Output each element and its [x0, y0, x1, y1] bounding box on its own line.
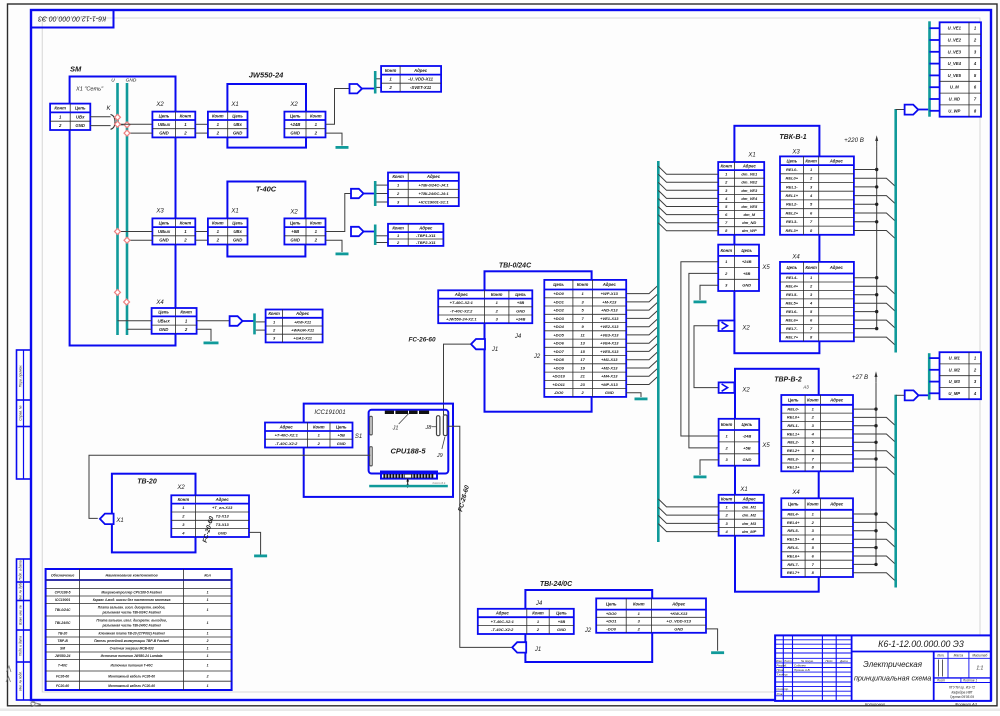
ground (ТВI-24/0C) — [711, 651, 724, 654]
junction on bus GND at K — [124, 122, 130, 128]
J9 connector slot — [443, 415, 447, 436]
svg-text:Микроконтроллер CPU188-5 Fastw: Микроконтроллер CPU188-5 Fastwel — [101, 591, 161, 595]
svg-text:Конт: Конт — [178, 497, 190, 502]
svg-text:+ТВI-24/0C-J4:1: +ТВI-24/0C-J4:1 — [418, 191, 449, 196]
svg-text:Копировал: Копировал — [865, 701, 886, 706]
cable label FC-20-60 (vertical) — [202, 515, 216, 543]
ТВ-20 X2 table — [171, 495, 249, 537]
svg-text:Лист: Лист — [936, 678, 946, 682]
svg-text:+ICC19001-S1:1: +ICC19001-S1:1 — [418, 199, 449, 204]
svg-text:+Т-40С-Х2:1: +Т-40С-Х2:1 — [450, 300, 474, 305]
svg-text:REL7-: REL7- — [787, 562, 799, 567]
svg-text:Адрес: Адрес — [742, 496, 757, 501]
svg-text:Конт: Конт — [721, 422, 733, 427]
svg-text:REL1-: REL1- — [786, 184, 798, 189]
svg-text:REL0-: REL0- — [786, 167, 798, 172]
svg-text:1: 1 — [207, 664, 209, 668]
ТВР X5 table — [719, 419, 760, 466]
external connector tap line (lower, teal) — [928, 353, 931, 400]
junction on bus U at K — [115, 114, 121, 120]
ТВК X1 label — [747, 153, 755, 159]
svg-text:Конт: Конт — [385, 68, 397, 73]
svg-text:1: 1 — [207, 608, 209, 612]
svg-text:1: 1 — [207, 654, 209, 658]
left signal group bus (teal) — [657, 161, 660, 542]
svg-text:GND: GND — [126, 78, 137, 84]
svg-text:Т3-Х13: Т3-Х13 — [216, 522, 230, 527]
svg-text:+VE4-X13: +VE4-X13 — [600, 341, 619, 346]
wire connector to tap line — [918, 109, 928, 111]
svg-text:dm_VE4: dm_VE4 — [741, 196, 758, 201]
wire tap to address row1 — [376, 78, 381, 80]
svg-text:Плата гальван. изол. дискретн.: Плата гальван. изол. дискретн. входов, — [98, 606, 166, 610]
T-40C X2 label — [289, 210, 298, 216]
JW550 X1 label — [230, 102, 238, 108]
ТВР X4 table — [781, 498, 853, 577]
X1 connector symbol (ТВ-20) — [100, 514, 114, 525]
wire bus U to X2.1 — [118, 123, 153, 125]
svg-text:+GA1-X11: +GA1-X11 — [293, 336, 312, 341]
svg-text:J4: J4 — [535, 601, 543, 607]
left margin stamp column (upper) — [17, 350, 32, 479]
ТВР X2 label — [741, 388, 750, 394]
svg-text:Цепь: Цепь — [158, 310, 169, 315]
svg-text:dm_M2: dm_M2 — [742, 513, 757, 518]
svg-text:J1: J1 — [491, 347, 498, 353]
teal tap bar (+5V A) — [374, 181, 377, 206]
svg-text:ICC191001: ICC191001 — [314, 409, 345, 416]
svg-text:А3: А3 — [802, 385, 809, 390]
svg-text:GND: GND — [674, 626, 683, 631]
wires relay- rows to +27V rail — [853, 409, 876, 564]
ТВК X3 table — [780, 156, 854, 234]
svg-text:+24В: +24В — [516, 317, 526, 322]
ТВ-20 X2 label — [176, 485, 185, 491]
SM X2 label — [155, 102, 164, 108]
svg-text:REL3-: REL3- — [786, 219, 798, 224]
ТВР upper relay table — [781, 395, 853, 471]
svg-text:REL4+: REL4+ — [787, 520, 800, 525]
wires tap A to address rows — [376, 185, 388, 202]
J1 label — [491, 347, 498, 353]
wire SM.X3.1 to T40C.X1.1 — [195, 231, 208, 233]
svg-text:Монтажный кабель FC20-60: Монтажный кабель FC20-60 — [108, 684, 155, 688]
wire bus U to X3.1 — [118, 231, 153, 233]
svg-text:REL6-: REL6- — [786, 309, 798, 314]
svg-text:+Т-40С-Х2:1: +Т-40С-Х2:1 — [275, 433, 299, 438]
svg-text:REL2-: REL2- — [787, 440, 799, 445]
svg-text:ТВI-24/0C: ТВI-24/0C — [55, 621, 71, 625]
junction bus U / X2.1 — [115, 121, 121, 127]
svg-text:Конт: Конт — [54, 106, 66, 111]
J8 label (CPU) — [424, 425, 436, 431]
svg-text:+Т-40С-Х2:1: +Т-40С-Х2:1 — [491, 619, 515, 624]
svg-text:Цепь: Цепь — [290, 220, 301, 225]
svg-text:разъемная часть ТВI-24/0C Fast: разъемная часть ТВI-24/0C Fastwel — [101, 624, 160, 628]
wires J2 rows to left signal bus — [626, 285, 658, 384]
wire SM.X2.1 to JW550.X1.1 — [195, 123, 208, 125]
svg-text:REL2+: REL2+ — [787, 448, 800, 453]
svg-text:GND: GND — [337, 441, 346, 446]
svg-text:X2: X2 — [289, 210, 298, 216]
svg-text:FC-26-60: FC-26-60 — [457, 484, 471, 512]
SM block label — [70, 65, 82, 74]
backplane slot line (teal) — [369, 481, 448, 487]
svg-text:U_VE1: U_VE1 — [948, 26, 962, 31]
address table of SM output net — [266, 310, 323, 343]
svg-text:GND: GND — [159, 131, 169, 136]
svg-text:Листов 1: Листов 1 — [962, 678, 977, 682]
svg-text:Формат А3: Формат А3 — [955, 701, 978, 706]
wire J2 GND to ground — [706, 629, 718, 651]
svg-text:Счетчик энергии МСВ-633: Счетчик энергии МСВ-633 — [110, 647, 154, 651]
svg-text:19: 19 — [580, 365, 585, 370]
svg-text:REL6-: REL6- — [787, 545, 799, 550]
svg-text:Цепь: Цепь — [159, 113, 170, 118]
svg-text:Конт: Конт — [212, 220, 224, 225]
svg-text:принципиальная схема: принципиальная схема — [854, 674, 931, 683]
J2 label — [533, 354, 541, 360]
junctions on +27V rail — [874, 407, 877, 566]
svg-text:U_VE4: U_VE4 — [948, 61, 962, 66]
wire bus GND to X3.2 — [127, 239, 152, 241]
svg-text:REL3+: REL3+ — [787, 465, 800, 470]
svg-text:Конт: Конт — [310, 113, 322, 118]
svg-text:Конт: Конт — [212, 113, 224, 118]
svg-text:Подп. и дата: Подп. и дата — [19, 560, 23, 580]
+220 В label — [844, 137, 864, 144]
svg-text:Цепь: Цепь — [515, 292, 526, 297]
ТВI-24/0C J4 power table — [478, 609, 574, 634]
svg-text:+VE5-X13: +VE5-X13 — [600, 349, 619, 354]
svg-text:REL2+: REL2+ — [786, 210, 799, 215]
svg-text:X4: X4 — [155, 300, 164, 306]
svg-text:2: 2 — [58, 123, 62, 128]
svg-text:Цепь: Цепь — [788, 502, 799, 507]
output board ТВI-24/0C outline — [525, 590, 652, 662]
svg-text:Адрес: Адрес — [215, 497, 230, 502]
svg-text:Перв. примен.: Перв. примен. — [19, 365, 23, 388]
svg-text:GND: GND — [605, 390, 614, 395]
svg-text:+KW-X13: +KW-X13 — [670, 611, 688, 616]
svg-text:ТВ-20: ТВ-20 — [137, 479, 157, 486]
ТВI-24/0C title — [540, 581, 573, 588]
svg-text:GND: GND — [742, 283, 751, 288]
svg-text:Адрес: Адрес — [279, 424, 294, 429]
svg-text:ICC19001: ICC19001 — [55, 598, 70, 602]
svg-text:Цепь: Цепь — [786, 158, 797, 163]
svg-text:U_M1: U_M1 — [949, 356, 961, 361]
external connector table X12 (lower) — [940, 352, 982, 399]
svg-text:Адрес: Адрес — [829, 397, 844, 402]
svg-text:Пронин А.В.: Пронин А.В. — [794, 668, 811, 672]
svg-text:Электрическая: Электрическая — [863, 660, 923, 669]
svg-text:REL3+: REL3+ — [786, 228, 799, 233]
cable label FC-26-60 (vertical) — [457, 484, 471, 512]
svg-text:Конт: Конт — [180, 310, 192, 315]
ground (ТВР X5) — [694, 476, 707, 479]
svg-text:Панель релейной коммутации ТВР: Панель релейной коммутации ТВР-В Fastwel — [94, 639, 169, 643]
svg-text:ТВР-В-2: ТВР-В-2 — [774, 377, 802, 384]
ground (ТВI-0/24C J2) — [635, 398, 648, 401]
ICC191001 title — [314, 409, 345, 416]
ТВI-0/24C J4 power table — [438, 290, 532, 323]
T-40C X1 label — [230, 209, 238, 215]
svg-text:REL7+: REL7+ — [787, 570, 800, 575]
svg-text:Цепь: Цепь — [232, 220, 243, 225]
bus GND (teal) — [126, 83, 129, 335]
svg-text:X2: X2 — [741, 326, 750, 332]
svg-text:REL0+: REL0+ — [787, 415, 800, 420]
wire CPU card to ТВ-20 X1 (cable FC-20-60) — [89, 455, 371, 518]
wires tap B to address rows — [376, 236, 388, 243]
title block footer texts — [865, 701, 978, 706]
svg-text:+DO7: +DO7 — [553, 349, 564, 354]
svg-text:X3: X3 — [791, 150, 800, 156]
svg-text:17: 17 — [580, 357, 585, 362]
svg-text:+M2-X13: +M2-X13 — [601, 365, 618, 370]
svg-text:X2: X2 — [289, 102, 298, 108]
svg-text:ТВК-В-1: ТВК-В-1 — [779, 134, 806, 141]
junction bus GND / X3.2 — [124, 237, 130, 243]
slot arrow — [406, 478, 409, 488]
svg-text:X1: X1 — [747, 153, 755, 159]
svg-text:X4: X4 — [791, 490, 800, 496]
svg-text:Адрес: Адрес — [295, 311, 310, 316]
svg-text:разъемная часть ТВI-0/24C Fast: разъемная часть ТВI-0/24C Fastwel — [101, 611, 160, 615]
wire CPU J9 to ТВI-24/0C J1 (cable FC-26-60) — [447, 426, 512, 647]
svg-text:GND: GND — [290, 238, 300, 243]
svg-text:1: 1 — [207, 647, 209, 651]
wire to +5V tap A — [364, 193, 375, 195]
svg-text:Цепь: Цепь — [556, 611, 567, 616]
ТВI-24/0C J2 signal table — [596, 598, 706, 632]
ТВI-0/24C J2 signal table — [544, 280, 626, 397]
ТВК X5 table — [718, 245, 759, 291]
svg-text:+24В: +24В — [290, 122, 300, 127]
svg-text:Адрес: Адрес — [413, 68, 428, 73]
wire X2 link ТВК to ТВР — [694, 326, 719, 388]
svg-text:Конт: Конт — [180, 113, 192, 118]
svg-text:U_VE2: U_VE2 — [948, 38, 962, 43]
wire SM.X2.2 to JW550.X1.2 — [195, 132, 208, 134]
+27 В label — [852, 374, 868, 381]
svg-text:X3: X3 — [155, 209, 164, 215]
svg-text:Адрес: Адрес — [829, 265, 844, 270]
ТВI-0/24C title — [499, 263, 532, 270]
svg-text:+DO8: +DO8 — [553, 357, 564, 362]
svg-text:Адрес: Адрес — [742, 164, 757, 169]
wire SM.X3.2 to T40C.X1.2 — [195, 239, 208, 241]
svg-text:+WAGR-X11: +WAGR-X11 — [291, 328, 315, 333]
wire connector to teal tap — [362, 88, 375, 90]
page bottom shadow band — [0, 708, 1000, 711]
svg-text:X1 "Сеть": X1 "Сеть" — [75, 87, 104, 93]
connector symbol to external X12 (lower) — [905, 390, 919, 400]
wire J2 GND to ground — [626, 393, 641, 397]
svg-text:+VE2-X13: +VE2-X13 — [600, 324, 619, 329]
power supply JW550-24 outline — [227, 84, 306, 148]
SM X4 pin table — [152, 308, 197, 334]
svg-text:Слот 6.1: Слот 6.1 — [432, 481, 445, 485]
JW550-24 title — [249, 71, 284, 80]
svg-text:+27 В: +27 В — [852, 374, 868, 381]
svg-text:Цепь: Цепь — [741, 248, 752, 253]
svg-text:+VE1-X13: +VE1-X13 — [600, 316, 619, 321]
svg-text:+Т_вн-Х13: +Т_вн-Х13 — [212, 505, 233, 510]
svg-text:2: 2 — [183, 238, 187, 243]
svg-text:-24В: -24В — [743, 433, 752, 438]
svg-text:Цепь: Цепь — [606, 602, 617, 607]
svg-text:1: 1 — [207, 621, 209, 625]
wire J1 to CPU J8 (cable FC-26-60) — [444, 344, 472, 415]
contact K bracket — [111, 115, 116, 130]
svg-text:K: K — [106, 106, 111, 112]
svg-text:+5В: +5В — [337, 433, 345, 438]
ТВК X4 label — [791, 255, 800, 261]
svg-text:Конт: Конт — [268, 311, 280, 316]
svg-text:1: 1 — [207, 684, 209, 688]
svg-text:Цепь: Цепь — [290, 113, 301, 118]
svg-text:Конт: Конт — [805, 265, 817, 270]
svg-text:Конт: Конт — [310, 220, 322, 225]
svg-text:CPU188-5: CPU188-5 — [390, 447, 426, 456]
svg-text:J4: J4 — [514, 334, 522, 340]
SM X3 pin table — [152, 218, 195, 244]
svg-text:+5В: +5В — [743, 271, 751, 276]
svg-text:К6-1-12.00.000.00 Э3: К6-1-12.00.000.00 Э3 — [878, 639, 964, 649]
svg-text:X1: X1 — [230, 102, 238, 108]
svg-text:X2: X2 — [176, 485, 185, 491]
svg-text:GND: GND — [233, 131, 243, 136]
svg-text:S1: S1 — [355, 434, 362, 440]
svg-text:REL4-: REL4- — [786, 275, 798, 280]
svg-text:Каркас 4-мод. шасси без настен: Каркас 4-мод. шасси без настенного монта… — [93, 598, 171, 602]
svg-text:GND: GND — [290, 131, 300, 136]
svg-text:FC20-60: FC20-60 — [56, 684, 69, 688]
teal tap bar (SM out) — [253, 313, 256, 334]
left margin stamp column (lower) — [17, 559, 32, 700]
svg-text:+ТВI-0/24C-J4:1: +ТВI-0/24C-J4:1 — [418, 183, 449, 188]
svg-text:X2: X2 — [741, 388, 750, 394]
cable label FC-26-60 (upper) — [409, 337, 436, 344]
svg-text:Конт: Конт — [805, 158, 817, 163]
terminal board ТВ-20 outline — [112, 474, 196, 553]
teal tap bar (+5V B) — [374, 225, 377, 246]
svg-text:dm_WP: dm_WP — [742, 228, 757, 233]
SM X2 pin table — [152, 112, 195, 138]
component legend table — [46, 569, 232, 690]
svg-text:Конт: Конт — [807, 502, 819, 507]
svg-text:Цепь: Цепь — [742, 422, 753, 427]
right group bus lower (teal) — [894, 395, 897, 588]
svg-text:+DO0: +DO0 — [553, 291, 564, 296]
svg-text:JW550-24: JW550-24 — [55, 654, 71, 658]
wire ТВК X5.3 to ground — [700, 285, 718, 300]
svg-text:-ТВР1-X11: -ТВР1-X11 — [416, 233, 436, 238]
wires relay- rows to +220V rail — [854, 170, 877, 329]
svg-text:2: 2 — [206, 674, 209, 678]
svg-text:REL2-: REL2- — [786, 202, 798, 207]
connector symbol (+5V net A) — [351, 189, 364, 198]
svg-text:REL5-: REL5- — [787, 528, 799, 533]
svg-text:Инв. № дубл.: Инв. № дубл. — [19, 581, 23, 601]
svg-text:Конт: Конт — [721, 248, 733, 253]
svg-text:X5: X5 — [761, 443, 770, 449]
svg-text:Изм.: Изм. — [776, 659, 782, 663]
svg-text:2: 2 — [183, 131, 187, 136]
svg-text:-DO0: -DO0 — [606, 626, 616, 631]
svg-text:+JW550-24-X2:1: +JW550-24-X2:1 — [446, 317, 477, 322]
rack S1 power table — [265, 423, 353, 448]
svg-text:CPU188-5: CPU188-5 — [55, 591, 71, 595]
svg-text:Адрес: Адрес — [418, 226, 433, 231]
svg-text:U_ND: U_ND — [949, 97, 960, 102]
junction bus U upper — [115, 289, 121, 295]
svg-text:U: U — [111, 78, 115, 84]
svg-text:Конт: Конт — [721, 164, 733, 169]
stubs tap line to external table (upper) — [930, 28, 940, 111]
svg-text:GND: GND — [557, 627, 566, 632]
CPU left card slots — [370, 416, 372, 466]
svg-text:dm_M3: dm_M3 — [742, 521, 757, 526]
wires signal bus to ТВК X1 — [658, 166, 718, 231]
svg-text:Адрес: Адрес — [829, 158, 844, 163]
svg-text:J1: J1 — [534, 647, 541, 653]
svg-text:+DO6: +DO6 — [553, 341, 564, 346]
svg-text:REL1+: REL1+ — [786, 193, 799, 198]
svg-text:U_MP: U_MP — [948, 391, 960, 396]
svg-text:dm_VE1: dm_VE1 — [741, 172, 758, 177]
svg-text:Цепь: Цепь — [553, 282, 564, 287]
wire bus to top-right connector symbol — [896, 109, 905, 111]
svg-text:Цепь: Цепь — [788, 397, 799, 402]
svg-text:SM: SM — [60, 647, 65, 651]
svg-text:+DO9: +DO9 — [553, 365, 564, 370]
svg-text:2: 2 — [206, 639, 209, 643]
wire K to bus GND — [115, 124, 127, 126]
svg-text:+5В: +5В — [291, 229, 299, 234]
svg-text:X5: X5 — [761, 265, 770, 271]
svg-text:J2: J2 — [584, 628, 592, 634]
wire connector to tap — [243, 320, 254, 322]
svg-text:Т-40С: Т-40С — [58, 664, 68, 668]
wire X4.2 to ground — [197, 329, 211, 341]
svg-text:J9: J9 — [436, 453, 443, 459]
svg-text:Плата гальван. изол. дискретн.: Плата гальван. изол. дискретн. выходов, — [96, 619, 166, 623]
svg-text:Адрес: Адрес — [829, 502, 844, 507]
svg-text:UВых: UВых — [158, 122, 171, 127]
net label GND — [126, 78, 137, 84]
ТВ-20 title — [137, 479, 157, 486]
svg-text:Клеммная плата ТВ-20 (СТР002): Клеммная плата ТВ-20 (СТР002) Fastwel — [98, 632, 164, 636]
svg-text:X1: X1 — [230, 209, 238, 215]
svg-text:REL3-: REL3- — [787, 456, 799, 461]
svg-text:Кол: Кол — [204, 573, 211, 577]
svg-text:+DO3: +DO3 — [553, 316, 564, 321]
J1 connector symbol (ТВI-24/0C) — [512, 642, 526, 652]
wire ТВ-20 X2.4 to ground — [249, 532, 261, 554]
ground (ТВ-20) — [254, 555, 267, 558]
svg-text:Адрес: Адрес — [426, 174, 441, 179]
svg-text:X4: X4 — [791, 255, 800, 261]
svg-text:UВых: UВых — [157, 318, 170, 323]
svg-text:U_M2: U_M2 — [949, 367, 961, 372]
svg-text:REL1-: REL1- — [787, 423, 799, 428]
svg-text:+ND-X13: +ND-X13 — [601, 308, 618, 313]
svg-text:dm_M: dm_M — [744, 212, 756, 217]
svg-text:15: 15 — [580, 349, 585, 354]
